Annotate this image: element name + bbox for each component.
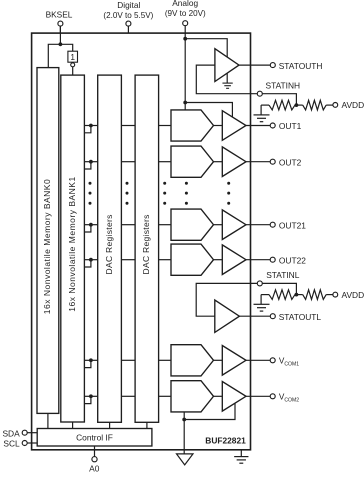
wire analog bus into OUT1 DAC: [184, 103, 186, 110]
pin STATINL: [257, 281, 262, 286]
wire analog feed to status buffer H: [185, 39, 227, 58]
svg-text:BUF22821: BUF22821: [205, 436, 246, 446]
svg-text:OUT2: OUT2: [279, 157, 302, 167]
svg-text:(9V to 20V): (9V to 20V): [165, 9, 206, 18]
svg-text:STATINH: STATINH: [266, 81, 301, 91]
label AVDD top: [342, 100, 364, 110]
resistor divider top right: [296, 100, 333, 110]
wire reg bus row OUT1: [84, 125, 97, 127]
wire DAC Registers B to Control IF: [146, 422, 148, 428]
ground chip earth: [234, 450, 248, 463]
wire DAC to amp OUT1: [214, 125, 223, 127]
label DAC Registers A: [104, 214, 114, 274]
label VCOM1: [279, 356, 299, 367]
wire DAC input OUT2: [159, 161, 171, 163]
pin STATINH: [257, 91, 262, 96]
pin A0: [92, 457, 97, 462]
op-amp OUT1: [222, 111, 246, 141]
wire DAC to amp OUT2: [214, 161, 223, 163]
op-amp OUT2: [222, 147, 246, 177]
DAC OUT22: [171, 244, 214, 275]
svg-text:1: 1: [70, 52, 75, 62]
inverter bubble: [71, 63, 75, 67]
label SDA: [2, 428, 20, 438]
pin OUT21: [270, 222, 275, 227]
ground divider bottom: [254, 295, 270, 312]
DAC OUT2: [171, 146, 214, 177]
label STATINL: [266, 270, 300, 280]
wire DAC regs link OUT22: [121, 259, 135, 261]
DAC OUT1: [171, 110, 214, 141]
wire reg bus row OUT21: [84, 224, 97, 226]
label STATOUTH: [279, 61, 323, 71]
block DAC Registers B: [135, 75, 159, 422]
label Digital: [117, 0, 140, 10]
ground status buffer H: [222, 73, 232, 88]
wire DAC input OUT21: [159, 224, 171, 226]
inverter box 1: [68, 51, 78, 62]
wire status buffer L feedback: [196, 283, 257, 316]
wire BANK0 to Control IF: [47, 413, 49, 428]
wire status buffer H feedback: [196, 65, 257, 94]
svg-text:AVDD: AVDD: [342, 100, 364, 110]
pin VCOM2: [270, 394, 275, 399]
label Analog range: [165, 9, 206, 18]
label OUT22: [279, 255, 306, 265]
label BKSEL: [46, 9, 73, 19]
label VCOM2: [279, 392, 299, 403]
label OUT1: [279, 121, 302, 131]
wire DAC input OUT1: [159, 125, 171, 127]
svg-text:16x Nonvolatile Memory BANK1: 16x Nonvolatile Memory BANK1: [67, 176, 77, 311]
junction reg bus OUT21: [89, 223, 93, 227]
block DAC Registers A: [98, 75, 122, 422]
pin BKSEL: [58, 21, 63, 33]
wire reg bus row VCOM2: [84, 395, 97, 397]
chip outline BUF22821: [32, 33, 251, 450]
op-amp OUT21: [222, 210, 246, 240]
pin VCOM1: [270, 358, 275, 363]
wire DAC regs link OUT1: [121, 125, 135, 127]
wire ground to VCOM2 amp: [184, 403, 235, 419]
wire reg bus branch OUT22: [84, 260, 91, 267]
DAC VCOM1: [171, 345, 214, 376]
label SCL: [3, 439, 20, 449]
junction divider top: [295, 103, 299, 107]
wire BANK1 to Control IF: [72, 422, 74, 429]
pin Analog supply: [183, 21, 188, 39]
wire DAC input OUT22: [159, 259, 171, 261]
ellipsis column 2: [126, 182, 129, 205]
DAC OUT21: [171, 209, 214, 240]
svg-text:DAC Registers: DAC Registers: [141, 214, 151, 274]
label OUT21: [279, 220, 306, 230]
wire status buffer H output: [239, 64, 270, 66]
wire VCOM2 DAC ground tap: [183, 412, 185, 420]
wire amp output OUT21: [246, 224, 270, 226]
svg-text:Control IF: Control IF: [76, 432, 113, 442]
ellipsis column 3: [163, 182, 166, 205]
pin OUT1: [270, 123, 275, 128]
op-amp OUT22: [222, 245, 246, 275]
wire DAC regs link OUT21: [121, 224, 135, 226]
wire DAC regs link OUT2: [121, 161, 135, 163]
label BANK0: [42, 179, 52, 314]
junction VCOM2 ground node: [182, 418, 186, 422]
wire amp output OUT22: [246, 259, 270, 261]
junction analog bus top: [183, 37, 187, 41]
resistor divider top left: [261, 100, 296, 110]
label Analog: [172, 0, 198, 8]
svg-text:AVDD: AVDD: [342, 290, 364, 300]
wire DAC input VCOM2: [159, 395, 171, 397]
svg-text:Digital: Digital: [117, 0, 140, 10]
wire DAC to amp VCOM2: [214, 395, 223, 397]
wire DAC input VCOM1: [159, 359, 171, 361]
pin AVDD top: [333, 103, 338, 108]
wire status buffer L output: [239, 315, 270, 317]
wire DAC regs link VCOM1: [121, 359, 135, 361]
wire amp output VCOM1: [246, 359, 270, 361]
block BANK1 16x Nonvolatile Memory: [61, 75, 85, 422]
wire BKSEL vertical: [59, 26, 61, 44]
pin Digital supply: [126, 21, 131, 33]
junction reg bus OUT1: [89, 124, 93, 128]
wire STATINH to divider: [262, 94, 296, 105]
wire A0: [94, 446, 96, 457]
op-amp status buffer H: [215, 49, 239, 82]
ground triangle: [177, 454, 194, 465]
svg-text:OUT1: OUT1: [279, 121, 302, 131]
svg-text:A0: A0: [89, 463, 100, 472]
DAC VCOM2: [171, 381, 214, 412]
wire reg bus row VCOM1: [84, 359, 97, 361]
wire amp output OUT2: [246, 161, 270, 163]
wire DAC to amp OUT22: [214, 259, 223, 261]
label BANK1: [67, 176, 77, 311]
resistor divider bottom right: [296, 290, 333, 300]
wire STATINL to divider: [262, 283, 296, 294]
wire BKSEL to inverter: [60, 44, 72, 51]
svg-text:SCL: SCL: [3, 439, 20, 449]
wire reg bus row OUT2: [84, 161, 97, 163]
svg-text:(2.0V to 5.5V): (2.0V to 5.5V): [103, 11, 153, 20]
pin OUT2: [270, 159, 275, 164]
svg-text:SDA: SDA: [2, 428, 20, 438]
op-amp VCOM1: [222, 346, 246, 376]
ellipsis column 4: [185, 182, 188, 205]
wire reg bus branch OUT1: [84, 126, 91, 133]
label DAC Registers B: [141, 214, 151, 274]
junction reg bus OUT22: [89, 258, 93, 262]
label Control IF: [76, 432, 113, 442]
svg-text:STATOUTH: STATOUTH: [279, 61, 323, 71]
junction reg bus OUT2: [89, 160, 93, 164]
wire ground node down: [183, 420, 185, 454]
label OUT2: [279, 157, 302, 167]
resistor divider bottom left: [261, 290, 296, 300]
pin AVDD bottom: [333, 292, 338, 297]
ground divider top: [254, 105, 270, 122]
wire DAC to amp VCOM1: [214, 359, 223, 361]
ellipsis column 1: [89, 182, 92, 205]
pin SCL: [22, 441, 37, 446]
junction reg bus VCOM1: [89, 358, 93, 362]
pin SDA: [22, 430, 37, 435]
wire amp output VCOM2: [246, 395, 270, 397]
wire amp output OUT1: [246, 125, 270, 127]
pin STATOUTH: [270, 63, 275, 68]
wire analog feed to OUT1 amp: [185, 103, 232, 118]
wire reg bus branch OUT21: [84, 225, 91, 232]
op-amp VCOM2: [222, 382, 246, 412]
svg-text:STATINL: STATINL: [266, 270, 300, 280]
svg-text:OUT21: OUT21: [279, 220, 306, 230]
block BANK0 16x Nonvolatile Memory: [37, 68, 59, 414]
wire reg bus branch VCOM2: [84, 396, 91, 403]
wire BKSEL to BANK0: [48, 44, 60, 67]
wire DAC to amp OUT21: [214, 224, 223, 226]
wire reg bus branch VCOM1: [84, 360, 91, 367]
label STATINH: [266, 81, 301, 91]
pin OUT22: [270, 257, 275, 262]
junction divider bottom: [295, 293, 299, 297]
svg-text:16x Nonvolatile Memory BANK0: 16x Nonvolatile Memory BANK0: [42, 179, 52, 314]
label A0: [89, 463, 100, 473]
junction reg bus VCOM2: [89, 394, 93, 398]
svg-text:Analog: Analog: [172, 0, 198, 8]
wire reg bus branch OUT2: [84, 162, 91, 169]
junction analog bus at OUT1 DAC: [183, 101, 187, 105]
junction BKSEL node: [59, 42, 63, 46]
wire DAC regs link VCOM2: [121, 395, 135, 397]
wire DAC Registers A to Control IF: [109, 422, 111, 428]
svg-text:DAC Registers: DAC Registers: [104, 214, 114, 274]
pin STATOUTL: [270, 314, 275, 319]
wire inverter to BANK1: [72, 67, 74, 75]
ellipsis column 5: [227, 182, 230, 205]
label AVDD bottom: [342, 290, 364, 300]
wire analog bus upper: [184, 39, 186, 103]
label Digital range: [103, 11, 153, 20]
label STATOUTL: [279, 312, 322, 322]
svg-text:OUT22: OUT22: [279, 255, 306, 265]
svg-text:BKSEL: BKSEL: [46, 9, 73, 19]
svg-text:STATOUTL: STATOUTL: [279, 312, 322, 322]
wire reg bus row OUT22: [84, 259, 97, 261]
op-amp status buffer L: [215, 300, 240, 332]
label BUF22821: [205, 436, 246, 446]
block Control IF: [37, 429, 152, 447]
